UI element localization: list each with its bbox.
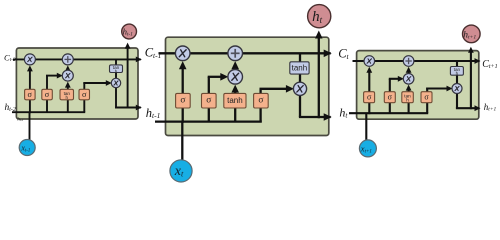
svg-text:σ: σ: [388, 93, 393, 102]
svg-text:σ: σ: [206, 96, 211, 106]
svg-text:Ct-2: Ct-2: [4, 52, 16, 63]
svg-text:ht-2: ht-2: [5, 103, 16, 113]
svg-text:Ct+1: Ct+1: [482, 59, 497, 70]
svg-text:ht+1: ht+1: [484, 102, 497, 113]
svg-text:ht-2: ht-2: [17, 118, 23, 123]
svg-text:Ct-1: Ct-1: [145, 46, 162, 60]
svg-text:σ: σ: [424, 93, 429, 102]
svg-text:σ: σ: [367, 93, 372, 102]
svg-text:σ: σ: [45, 90, 50, 99]
svg-text:σ: σ: [258, 96, 263, 106]
svg-text:h: h: [456, 71, 459, 76]
svg-text:tanh: tanh: [292, 64, 308, 73]
svg-text:h: h: [66, 95, 69, 100]
svg-text:σ: σ: [28, 90, 33, 99]
svg-text:ht-1: ht-1: [146, 106, 161, 120]
svg-text:σ: σ: [82, 90, 87, 99]
svg-text:ht: ht: [339, 106, 348, 120]
svg-text:Ct: Ct: [338, 47, 349, 61]
svg-text:tanh: tanh: [227, 96, 243, 105]
svg-text:σ: σ: [180, 96, 185, 106]
svg-text:h: h: [406, 98, 409, 103]
svg-text:h: h: [115, 69, 118, 74]
